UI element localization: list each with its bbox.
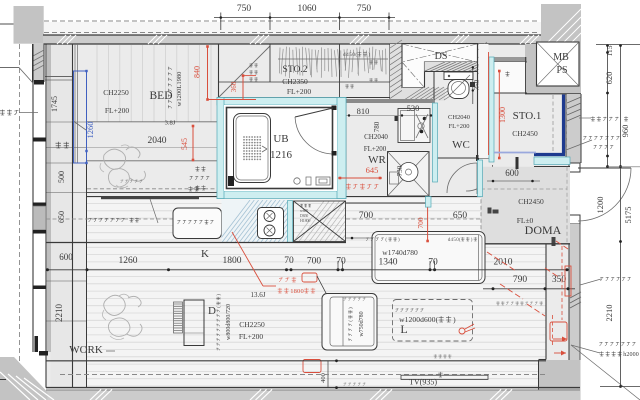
svg-text:FL+200: FL+200 bbox=[287, 87, 311, 96]
K cyan stub bbox=[288, 201, 293, 243]
wall: engawa/room boundary bbox=[72, 44, 74, 388]
dim 70 a bbox=[284, 256, 294, 266]
red beam leader bbox=[232, 232, 276, 286]
tiny 収納2 bbox=[249, 77, 257, 81]
label STO.1 bbox=[513, 110, 542, 122]
tiny 上置 bbox=[249, 63, 257, 67]
label K bbox=[201, 248, 209, 260]
red dim 360 bbox=[208, 74, 257, 99]
K top wall line bbox=[87, 196, 483, 198]
wall: WR top dark band bbox=[346, 99, 434, 103]
label UB 1216 bbox=[270, 149, 293, 161]
UB wall band right bbox=[337, 98, 346, 199]
dim 2010 bbox=[494, 258, 513, 268]
svg-text:BED: BED bbox=[150, 90, 173, 102]
floor: balcony left strip (outside) bbox=[20, 44, 33, 388]
svg-text:CH2040: CH2040 bbox=[364, 133, 388, 141]
floor: engawa strip bbox=[51, 44, 73, 387]
label WC FL+200 bbox=[448, 123, 469, 130]
wall: column stub left bbox=[0, 23, 14, 25]
svg-text:700: 700 bbox=[416, 217, 425, 229]
label キッチンサイド収納 bbox=[89, 218, 139, 222]
sofa outer bbox=[322, 294, 377, 351]
UB interior bbox=[224, 105, 337, 191]
svg-text:1340: 1340 bbox=[379, 258, 398, 268]
dim 530 bbox=[407, 103, 420, 113]
dim 1745 rot bbox=[50, 96, 59, 112]
dim 750 a bbox=[237, 4, 252, 14]
dim 5175 rot bbox=[623, 207, 633, 224]
WR vanity box bbox=[398, 109, 430, 143]
floor: interior base bbox=[46, 35, 570, 390]
sofa inner bbox=[330, 297, 374, 346]
washer small box bbox=[390, 172, 399, 184]
blue proposed counter rect bbox=[74, 70, 88, 164]
svg-text:CH2450: CH2450 bbox=[518, 197, 544, 206]
flooring: BED vertical planks bbox=[97, 45, 211, 122]
UB faucet marks bbox=[262, 146, 267, 152]
svg-text:5175: 5175 bbox=[623, 207, 633, 224]
UB door jamb lower bbox=[332, 151, 337, 156]
right dim lines bbox=[596, 44, 640, 388]
svg-text:DOMA: DOMA bbox=[525, 223, 562, 237]
wall: top balcony wall band bbox=[43, 35, 541, 44]
red dashed vertical a bbox=[561, 246, 563, 320]
red box bottom-center bbox=[303, 360, 321, 373]
BED dashed line bbox=[87, 188, 218, 190]
svg-text:L: L bbox=[400, 322, 407, 336]
label w1740d780 bbox=[382, 248, 418, 257]
WR vanity mirror bbox=[401, 111, 415, 141]
red note 少し小さい bbox=[346, 184, 378, 190]
WR/WC divider cyan bbox=[433, 103, 438, 182]
wall: right wall lower bbox=[569, 224, 580, 360]
STO.2 hanging clothes strokes bbox=[279, 47, 386, 78]
wall: WR left bbox=[345, 103, 347, 197]
corridor door arc bbox=[466, 165, 493, 191]
wall cavity strip bbox=[479, 44, 489, 158]
dim text 350 WC bbox=[473, 79, 481, 90]
line x=86.5 (counter front) bbox=[86, 163, 88, 388]
svg-text:350: 350 bbox=[552, 275, 567, 285]
svg-text:CH2250: CH2250 bbox=[103, 88, 129, 97]
BED bottom line bbox=[87, 192, 218, 194]
label レコード bbox=[190, 176, 210, 180]
svg-text:1300: 1300 bbox=[498, 107, 507, 123]
svg-text:WC: WC bbox=[452, 139, 470, 151]
dim 70 c bbox=[428, 258, 438, 268]
leader サウンド bbox=[580, 279, 601, 285]
tiny スツール bbox=[366, 237, 400, 243]
UB door arc bbox=[295, 117, 332, 154]
closet dashed verticals bbox=[553, 95, 567, 152]
svg-text:1216: 1216 bbox=[270, 149, 293, 161]
red dim 700 vert bbox=[416, 202, 429, 242]
wall: STO.2 right bbox=[389, 44, 391, 103]
svg-text:K: K bbox=[201, 248, 209, 260]
svg-text:790: 790 bbox=[513, 275, 528, 285]
dashed property line left bbox=[19, 44, 21, 361]
label 収納 bed bbox=[195, 185, 205, 190]
svg-text:h2000: h2000 bbox=[623, 352, 639, 358]
window: left glazing lines bbox=[48, 44, 50, 352]
svg-text:1800: 1800 bbox=[223, 256, 242, 266]
dim 790 bbox=[513, 275, 528, 285]
label UB bbox=[273, 133, 288, 145]
svg-text:650: 650 bbox=[57, 211, 66, 223]
svg-text:1260: 1260 bbox=[119, 256, 138, 266]
wall: bottom balcony band bbox=[46, 388, 580, 400]
red box projector bbox=[550, 322, 567, 341]
dim 780 rot bbox=[373, 121, 381, 132]
svg-text:d450(: d450( bbox=[448, 238, 461, 243]
window head lines engawa top bbox=[45, 77, 73, 81]
label L bbox=[400, 322, 407, 336]
niche bottom bbox=[489, 92, 527, 94]
label WC bbox=[452, 139, 470, 151]
red arrow b bbox=[554, 351, 566, 356]
window: end block bottom bbox=[35, 336, 49, 356]
tiny 位置想定 bbox=[434, 354, 452, 358]
WC door jamb tick bbox=[476, 155, 479, 161]
dim line WR bbox=[346, 114, 434, 116]
dim 115 rot bbox=[605, 45, 614, 56]
cyan stub below WC bbox=[426, 197, 432, 208]
label WR FL+200 bbox=[364, 145, 387, 153]
wall: STO.1 top band bbox=[487, 57, 527, 62]
wall hatch: strip right of STO.2 bbox=[390, 40, 402, 103]
tiny d450黒 bbox=[448, 237, 477, 243]
svg-text:600: 600 bbox=[59, 252, 73, 262]
K hatch area bbox=[218, 200, 319, 243]
red projection dashes bbox=[487, 241, 568, 316]
dim 400 rot bbox=[320, 359, 338, 389]
svg-text:545: 545 bbox=[180, 138, 189, 150]
TV board bbox=[401, 375, 488, 379]
svg-text:530: 530 bbox=[407, 103, 420, 113]
svg-text:STO.2: STO.2 bbox=[283, 65, 308, 75]
K hamekomi counter bbox=[173, 208, 222, 239]
dining table D bbox=[184, 300, 204, 346]
svg-text:w750d780: w750d780 bbox=[359, 311, 365, 336]
sofa back line bbox=[342, 297, 344, 346]
main dim line bbox=[46, 268, 569, 271]
label サウンドバー bbox=[600, 277, 631, 281]
wall: STO.1 left cyan bbox=[489, 57, 494, 162]
wall: top-right concrete mass bbox=[525, 4, 581, 94]
line under cyan sto1 bbox=[534, 166, 570, 168]
dim 650 hall bbox=[453, 211, 468, 221]
window: gray sill box bbox=[33, 206, 46, 230]
bottom dashed line bbox=[60, 374, 545, 376]
label 物干し bbox=[0, 110, 18, 116]
label STO.2 bbox=[283, 65, 308, 75]
DOMA step mark 3 bbox=[552, 237, 556, 246]
dim line 790/350 bbox=[483, 287, 575, 290]
TV wall line bbox=[46, 360, 546, 362]
svg-text:PS: PS bbox=[556, 65, 567, 76]
dim 350 WC line bbox=[472, 66, 474, 104]
red text ダイ梁 bbox=[279, 277, 296, 282]
wall: left stem hatch bbox=[33, 50, 44, 71]
svg-text:645: 645 bbox=[366, 165, 379, 175]
DOMA step mark 1 bbox=[488, 208, 499, 214]
wall: right wall hatch marks bbox=[567, 97, 581, 121]
cyan band below navy bbox=[534, 157, 570, 165]
label D bbox=[208, 305, 216, 317]
dim 350 doma bbox=[552, 275, 567, 285]
work dash bbox=[106, 350, 115, 352]
label CH2450 sto1 bbox=[512, 129, 538, 138]
hall line2 bbox=[346, 237, 480, 240]
svg-text:UB: UB bbox=[273, 133, 288, 145]
BED line mid bbox=[87, 147, 218, 149]
top dim ticks bbox=[220, 13, 391, 31]
svg-text:TV(935): TV(935) bbox=[409, 378, 437, 387]
wall: right wall lower hatch bbox=[570, 292, 581, 308]
svg-text:WORK: WORK bbox=[69, 344, 103, 356]
svg-text:700: 700 bbox=[359, 211, 374, 221]
UB wall band bottom bbox=[217, 191, 346, 199]
red pencil mark bbox=[459, 324, 475, 334]
washer box bbox=[388, 152, 430, 197]
K burner 2 bbox=[264, 225, 275, 236]
STO.2 diagonal bbox=[219, 46, 271, 98]
svg-text:2040: 2040 bbox=[148, 136, 167, 146]
BED line low bbox=[87, 160, 218, 162]
wall: bottom-left corner stripes bbox=[0, 372, 54, 400]
LDK right wall line bbox=[545, 244, 547, 360]
wall hatch: right of WC top bbox=[478, 42, 488, 90]
leader 有孔 bbox=[579, 117, 591, 119]
label w800 rot bbox=[226, 304, 232, 340]
label 13.6J bbox=[251, 291, 266, 299]
diagonal door-swing mark engawa bbox=[73, 121, 87, 131]
label PS bbox=[556, 65, 567, 76]
wall: left stem below column bbox=[33, 44, 45, 82]
label CH2250 d bbox=[239, 320, 265, 329]
WR vanity sink marks bbox=[416, 114, 428, 138]
K counter thick bar bbox=[101, 196, 199, 199]
svg-text:2210: 2210 bbox=[604, 305, 614, 322]
svg-text:FL+200: FL+200 bbox=[448, 123, 469, 130]
navy wall vertical bbox=[562, 95, 565, 154]
label 下部 bbox=[195, 166, 205, 171]
LDK bottom-right step bbox=[539, 359, 547, 361]
svg-text:960: 960 bbox=[620, 125, 630, 138]
svg-text:700: 700 bbox=[307, 257, 322, 267]
svg-text:1260: 1260 bbox=[85, 122, 95, 139]
window frame black block engawa bbox=[34, 80, 44, 85]
label w1200d600 bbox=[399, 315, 456, 324]
tiny 布団 bbox=[249, 70, 257, 74]
svg-text:840: 840 bbox=[193, 66, 202, 78]
svg-text:FL+200: FL+200 bbox=[239, 332, 263, 341]
svg-text:CH2250: CH2250 bbox=[239, 320, 265, 329]
svg-text:600: 600 bbox=[505, 168, 519, 178]
DOMA dashed inner bbox=[481, 167, 567, 244]
bench outer bbox=[372, 232, 485, 284]
wall: WC right bbox=[477, 44, 479, 160]
label CH2350 bbox=[282, 77, 308, 86]
DOMA/LDK boundary bbox=[480, 241, 570, 244]
washer drum bbox=[399, 163, 418, 182]
label 3.8J bbox=[165, 120, 176, 127]
wall: STO.1 top line bbox=[487, 61, 527, 63]
UB lower-left black bits bbox=[228, 176, 234, 186]
wall hatch: right of DS leg bbox=[424, 62, 495, 72]
svg-text:MB: MB bbox=[553, 52, 569, 63]
bench inner bbox=[375, 235, 482, 281]
wall: bottom-right corner mass bbox=[539, 360, 581, 400]
red dim 1300 bbox=[498, 70, 507, 160]
entry door arc bbox=[578, 168, 631, 221]
wall: top-left concrete column bbox=[14, 6, 44, 44]
label WR bbox=[368, 154, 386, 166]
dim 2210 rot right bbox=[604, 305, 614, 322]
tiny red 映画など bbox=[496, 301, 543, 305]
label DOMA bbox=[525, 223, 562, 237]
STO.2 shelf line bbox=[219, 81, 391, 83]
red arrow a bbox=[553, 337, 567, 342]
svg-text:810: 810 bbox=[357, 106, 370, 116]
svg-text:FL+200: FL+200 bbox=[364, 145, 387, 153]
label はめ込み bbox=[177, 220, 213, 224]
niche divider bbox=[525, 57, 527, 93]
label ダイニング rot bbox=[216, 294, 222, 351]
BED line 3.8J bbox=[87, 121, 218, 123]
dim 1800 bbox=[223, 256, 242, 266]
dim 620 rot bbox=[604, 72, 614, 85]
svg-text:13.6J: 13.6J bbox=[251, 291, 266, 299]
leader: outside upper bbox=[0, 68, 33, 83]
svg-text:650: 650 bbox=[453, 211, 468, 221]
K burner 1 bbox=[264, 211, 275, 222]
wall: WC bottom line bbox=[434, 157, 489, 159]
svg-text:750: 750 bbox=[357, 4, 372, 14]
svg-text:w800d800/720: w800d800/720 bbox=[226, 304, 232, 340]
svg-text:500: 500 bbox=[57, 171, 66, 183]
UB wall band left bbox=[217, 98, 224, 199]
sto1 jamb tick bbox=[516, 157, 519, 169]
svg-text:360: 360 bbox=[230, 81, 238, 92]
svg-text:D: D bbox=[208, 305, 216, 317]
dim 730 rot bbox=[396, 165, 404, 176]
dim 1060 bbox=[298, 4, 317, 14]
leader long diagonal bbox=[571, 345, 640, 400]
label WORK bbox=[69, 344, 103, 356]
niche interior bbox=[494, 62, 526, 93]
label WR CH2040 bbox=[364, 133, 388, 141]
dim 70 arrows c bbox=[430, 261, 435, 270]
UB tub bbox=[234, 114, 271, 183]
dim 810 bbox=[357, 106, 370, 116]
dim 1200 rot bbox=[595, 197, 605, 214]
dim 750 b bbox=[357, 4, 372, 14]
svg-text:730: 730 bbox=[396, 165, 404, 176]
red dim line aux sto1 bbox=[488, 52, 490, 155]
toilet bowl bbox=[448, 75, 475, 99]
svg-text:1060: 1060 bbox=[298, 4, 317, 14]
washer cross bbox=[388, 152, 430, 197]
svg-text:DS: DS bbox=[435, 51, 448, 62]
red dashed vertical b bbox=[552, 315, 554, 347]
engawa segment lines bbox=[46, 122, 88, 361]
K stove bbox=[258, 208, 284, 239]
svg-text:620: 620 bbox=[604, 72, 614, 85]
svg-text:CH2350: CH2350 bbox=[282, 77, 308, 86]
wall: bottom-left balcony corner bbox=[0, 357, 48, 400]
red narrow box right bbox=[565, 266, 571, 296]
dim 1340 bbox=[379, 258, 398, 268]
red text 梁下 bbox=[278, 288, 316, 295]
dim 500 rot bbox=[57, 171, 66, 183]
label 投影可能 bbox=[600, 351, 639, 358]
wall: right wall upper (hatched) bbox=[566, 94, 581, 163]
navy wall horizontal bbox=[534, 153, 565, 156]
wall: entry door jamb upper bbox=[569, 163, 580, 172]
tiny 収納4 bbox=[345, 84, 354, 88]
wall: left outer face bbox=[32, 44, 34, 352]
svg-text:w1200L1980: w1200L1980 bbox=[176, 72, 183, 107]
K 収納 leader bbox=[150, 199, 158, 223]
UB door jamb upper bbox=[332, 106, 337, 111]
UB bath mat dots bbox=[243, 136, 261, 160]
label ソファー rot bbox=[348, 307, 354, 341]
floor: outside top bbox=[0, 0, 640, 35]
fridge cross bbox=[294, 201, 346, 242]
label 棚 bbox=[505, 71, 509, 76]
black leader to sofa bbox=[317, 276, 327, 295]
red dim 545 bbox=[180, 125, 194, 162]
label シングル bbox=[594, 145, 614, 149]
STO.2 bottom line bbox=[219, 97, 391, 99]
wall: WC left upper bbox=[433, 72, 435, 104]
svg-text:780: 780 bbox=[373, 121, 381, 132]
wall: STO.2 left bbox=[218, 44, 220, 98]
STO.2 divider 2 bbox=[339, 44, 341, 98]
DS cross lines bbox=[402, 44, 477, 87]
svg-text:1200: 1200 bbox=[595, 197, 605, 214]
wall: left inner face bbox=[45, 44, 47, 388]
svg-text:2210: 2210 bbox=[54, 304, 64, 323]
label 有孔ボード壁 bbox=[591, 116, 628, 121]
wall: entry door jamb lower bbox=[569, 215, 580, 224]
label CH2250 BED bbox=[103, 88, 129, 97]
WC door arc bbox=[447, 163, 477, 194]
svg-text:3.8J: 3.8J bbox=[165, 120, 176, 127]
svg-text:CH2040: CH2040 bbox=[448, 114, 470, 121]
shoji track lines bbox=[75, 44, 78, 163]
label TV(935) bbox=[409, 378, 437, 387]
DS duct space box bbox=[402, 44, 478, 88]
svg-text:H1800: H1800 bbox=[300, 218, 310, 223]
tiny スピーカー top bbox=[344, 298, 366, 301]
L table dashed rect bbox=[393, 300, 473, 342]
sketch chair work bbox=[102, 294, 142, 339]
svg-text:750: 750 bbox=[237, 4, 252, 14]
top dim line bbox=[214, 17, 395, 19]
dining chair striped bbox=[174, 302, 183, 333]
label WC CH2040 bbox=[448, 114, 470, 121]
curtain rail pale blue bbox=[494, 152, 536, 154]
wall hatch: below DS leg bbox=[402, 87, 464, 101]
label FL±0 bbox=[517, 216, 534, 225]
label FL+200 d bbox=[239, 332, 263, 341]
STO.2 hanger pipe bbox=[278, 58, 388, 60]
UB unit outline bbox=[227, 108, 333, 189]
sketch chair engawa bbox=[100, 145, 146, 188]
